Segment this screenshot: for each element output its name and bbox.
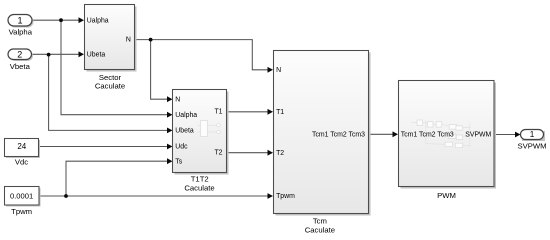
svg-text:N: N — [126, 37, 131, 44]
preview subsystem icon — [411, 120, 470, 148]
svg-text:2: 2 — [17, 49, 22, 59]
wire branch Tpwm up to T1T2.Ts — [66, 161, 169, 196]
arrowhead into Tcm.Tpwm — [268, 193, 274, 199]
arrowhead into T1T2.N — [167, 96, 173, 102]
arrowhead into T1T2.Udc — [167, 144, 173, 150]
arrowhead into PWM input — [393, 131, 399, 137]
svg-text:T2: T2 — [276, 150, 284, 157]
wire PWM.SVPWM to outport — [494, 134, 517, 136]
svg-text:N: N — [175, 96, 180, 103]
svg-text:Valpha: Valpha — [9, 27, 33, 36]
svg-text:PWM: PWM — [437, 191, 456, 200]
junction dot on N wire — [149, 38, 153, 42]
svg-text:Ualpha: Ualpha — [175, 112, 197, 119]
arrowhead into Tcm.N — [268, 67, 274, 73]
svg-text:SVPWM: SVPWM — [465, 131, 491, 138]
svg-text:N: N — [276, 67, 281, 74]
constant Vdc value 24 — [5, 139, 41, 167]
svg-text:Caculate: Caculate — [95, 82, 125, 91]
inport 2 Vbeta — [8, 49, 33, 71]
svg-text:T2: T2 — [214, 150, 222, 157]
svg-text:Tpwm: Tpwm — [276, 193, 295, 200]
arrowhead into T1T2.Ts — [167, 158, 173, 164]
svg-text:Tpwm: Tpwm — [11, 207, 32, 216]
svg-text:Ualpha: Ualpha — [87, 17, 109, 24]
arrowhead into Tcm.T2 — [268, 150, 274, 156]
svg-text:1: 1 — [17, 15, 22, 25]
svg-text:Sector: Sector — [99, 73, 122, 82]
wire T1T2.T2 to Tcm.T2 — [226, 152, 269, 154]
arrowhead into Sector.Ualpha — [79, 17, 85, 23]
wire Tpwm to Tcm.Tpwm — [39, 195, 269, 197]
wire branch N down to T1T2.N — [151, 40, 169, 100]
inport 1 Valpha — [8, 15, 34, 37]
svg-text:Vdc: Vdc — [15, 157, 28, 166]
svg-text:0.0001: 0.0001 — [10, 192, 33, 201]
svg-text:Tcm1 Tcm2 Tcm3: Tcm1 Tcm2 Tcm3 — [312, 131, 365, 138]
svg-text:Caculate: Caculate — [184, 183, 214, 192]
svg-text:Caculate: Caculate — [305, 226, 335, 235]
wire Sector.N to Tcm.N — [135, 40, 269, 70]
svg-text:Vbeta: Vbeta — [10, 62, 31, 71]
svg-text:Tcm1 Tcm2 Tcm3: Tcm1 Tcm2 Tcm3 — [401, 131, 454, 138]
junction dot on Valpha wire — [59, 18, 63, 22]
svg-text:Tcm: Tcm — [313, 217, 327, 226]
svg-text:T1: T1 — [214, 109, 222, 116]
svg-text:1: 1 — [530, 130, 535, 139]
block Tcm Caculate — [274, 51, 371, 235]
svg-text:T1: T1 — [276, 109, 284, 116]
wire Vbeta to Sector.Ubeta — [32, 53, 81, 55]
junction dot on Tpwm wire — [64, 194, 68, 198]
wire branch Valpha down to T1T2.Ualpha — [61, 20, 169, 115]
wire T1T2.T1 to Tcm.T1 — [226, 111, 269, 113]
arrowhead into Sector.Ubeta — [79, 51, 85, 57]
arrowhead into Tcm.T1 — [268, 109, 274, 115]
block T1T2 Caculate — [173, 90, 229, 193]
constant Tpwm value 0.0001 — [5, 187, 41, 216]
svg-text:Ubeta: Ubeta — [175, 128, 194, 135]
svg-text:Ubeta: Ubeta — [87, 51, 106, 58]
svg-text:Ts: Ts — [175, 158, 182, 165]
arrowhead into T1T2.Ualpha — [167, 112, 173, 118]
junction dot on Vbeta wire — [47, 53, 51, 57]
wire Valpha to Sector.Ualpha — [32, 19, 80, 21]
wire Tcm out to PWM in — [368, 133, 394, 135]
svg-text:24: 24 — [17, 142, 26, 151]
svg-text:T1T2: T1T2 — [191, 175, 209, 184]
preview subsystem icon — [198, 121, 221, 137]
outport 1 SVPWM — [517, 130, 546, 151]
arrowhead into T1T2.Ubeta — [167, 127, 173, 133]
wire Vdc to T1T2.Udc — [39, 146, 169, 148]
svg-text:Udc: Udc — [175, 144, 188, 151]
wire branch Vbeta down to T1T2.Ubeta — [49, 54, 169, 130]
arrowhead into outport SVPWM — [515, 132, 521, 138]
block PWM — [399, 81, 497, 200]
svg-text:SVPWM: SVPWM — [517, 142, 546, 151]
block Sector Caculate — [85, 5, 137, 91]
